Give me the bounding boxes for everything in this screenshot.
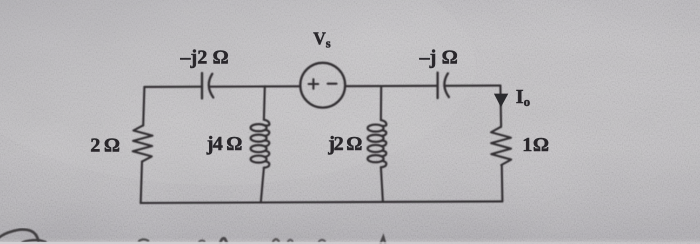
inductor L1 j4ohm coil [251, 120, 270, 168]
wire: C1 to node A (j4 branch tee) [210, 85, 265, 87]
wire: top-left corner to capacitor C1 [144, 86, 201, 88]
resistor R1 2ohm zigzag [133, 125, 153, 161]
capacitor C1 left plate [201, 73, 203, 99]
source VS circle [300, 63, 345, 108]
handwriting mark a [139, 239, 148, 241]
handwriting mark c [220, 238, 226, 242]
handwriting mark b [199, 240, 204, 241]
svg-text:1 Ω: 1 Ω [522, 134, 549, 156]
svg-text:2 Ω: 2 Ω [90, 135, 120, 157]
svg-text:j2 Ω: j2 Ω [327, 133, 362, 155]
wire: j4 branch top stub [263, 86, 266, 119]
handwriting mark e [288, 240, 292, 242]
handwriting mark d [273, 239, 279, 242]
capacitor C1 curved plate [209, 74, 214, 98]
handwriting swirl bottom-left [0, 229, 38, 241]
bottom page edge light strip [0, 242, 700, 244]
capacitor C2 curved plate [444, 73, 449, 97]
arrow Io head [494, 94, 508, 108]
wire: source VS to node B (j2 branch tee) [345, 85, 381, 87]
source VS minus sign [328, 83, 337, 85]
handwriting mark g [381, 237, 386, 244]
capacitor C2 left plate [436, 73, 438, 99]
source VS plus sign [309, 79, 319, 89]
inductor L2 j2ohm coil [368, 120, 387, 167]
wire: bottom rail [141, 201, 503, 203]
wire: node B to capacitor C2 [381, 85, 436, 87]
wire: R2 to bottom-right corner [501, 165, 504, 201]
wire: j2 branch bottom stub [381, 167, 383, 202]
wire: j4 branch bottom stub [261, 168, 264, 203]
wire: j2 branch top stub [380, 86, 382, 120]
svg-text:j4 Ω: j4 Ω [206, 133, 243, 155]
resistor R2 1ohm zigzag [491, 127, 511, 165]
wire: R1 to bottom-left corner [141, 162, 142, 203]
svg-text:–j2 Ω: –j2 Ω [179, 47, 228, 69]
svg-text:–j Ω: –j Ω [419, 46, 458, 68]
wire: right side down through arrow to resistor R2 [499, 86, 502, 127]
handwriting mark f [319, 240, 325, 242]
handwriting swirl underhook [23, 240, 46, 242]
wire: node A to source VS [265, 85, 301, 87]
wire: C2 to top-right corner [446, 85, 500, 87]
wire: left side top stub [143, 87, 144, 125]
